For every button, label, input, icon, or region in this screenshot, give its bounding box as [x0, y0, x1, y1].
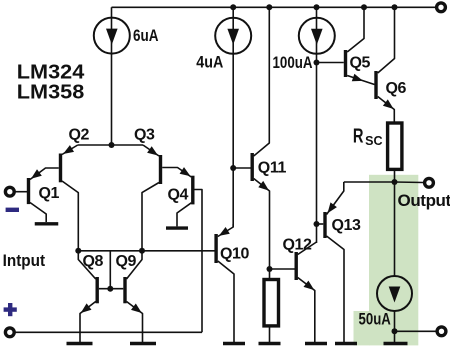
- svg-text:Q13: Q13: [332, 217, 362, 234]
- svg-text:Q2: Q2: [69, 127, 90, 144]
- svg-text:Q11: Q11: [258, 159, 287, 176]
- svg-text:Q3: Q3: [134, 127, 155, 144]
- svg-text:Output: Output: [398, 191, 450, 210]
- svg-text:Q4: Q4: [168, 187, 189, 204]
- svg-text:100uA: 100uA: [273, 53, 313, 72]
- svg-text:Q6: Q6: [386, 80, 407, 97]
- svg-text:R: R: [353, 126, 364, 148]
- svg-text:4uA: 4uA: [196, 53, 223, 72]
- svg-text:Q5: Q5: [350, 55, 371, 72]
- svg-text:50uA: 50uA: [359, 309, 391, 328]
- svg-text:Q10: Q10: [220, 246, 250, 263]
- svg-text:Q12: Q12: [283, 237, 313, 254]
- svg-text:Intput: Intput: [3, 252, 46, 270]
- svg-text:LM358: LM358: [17, 81, 85, 104]
- svg-text:Q1: Q1: [39, 185, 60, 202]
- svg-text:Q8: Q8: [83, 253, 104, 270]
- svg-text:SC: SC: [365, 134, 382, 148]
- svg-text:Q9: Q9: [116, 253, 137, 270]
- svg-text:6uA: 6uA: [133, 26, 159, 45]
